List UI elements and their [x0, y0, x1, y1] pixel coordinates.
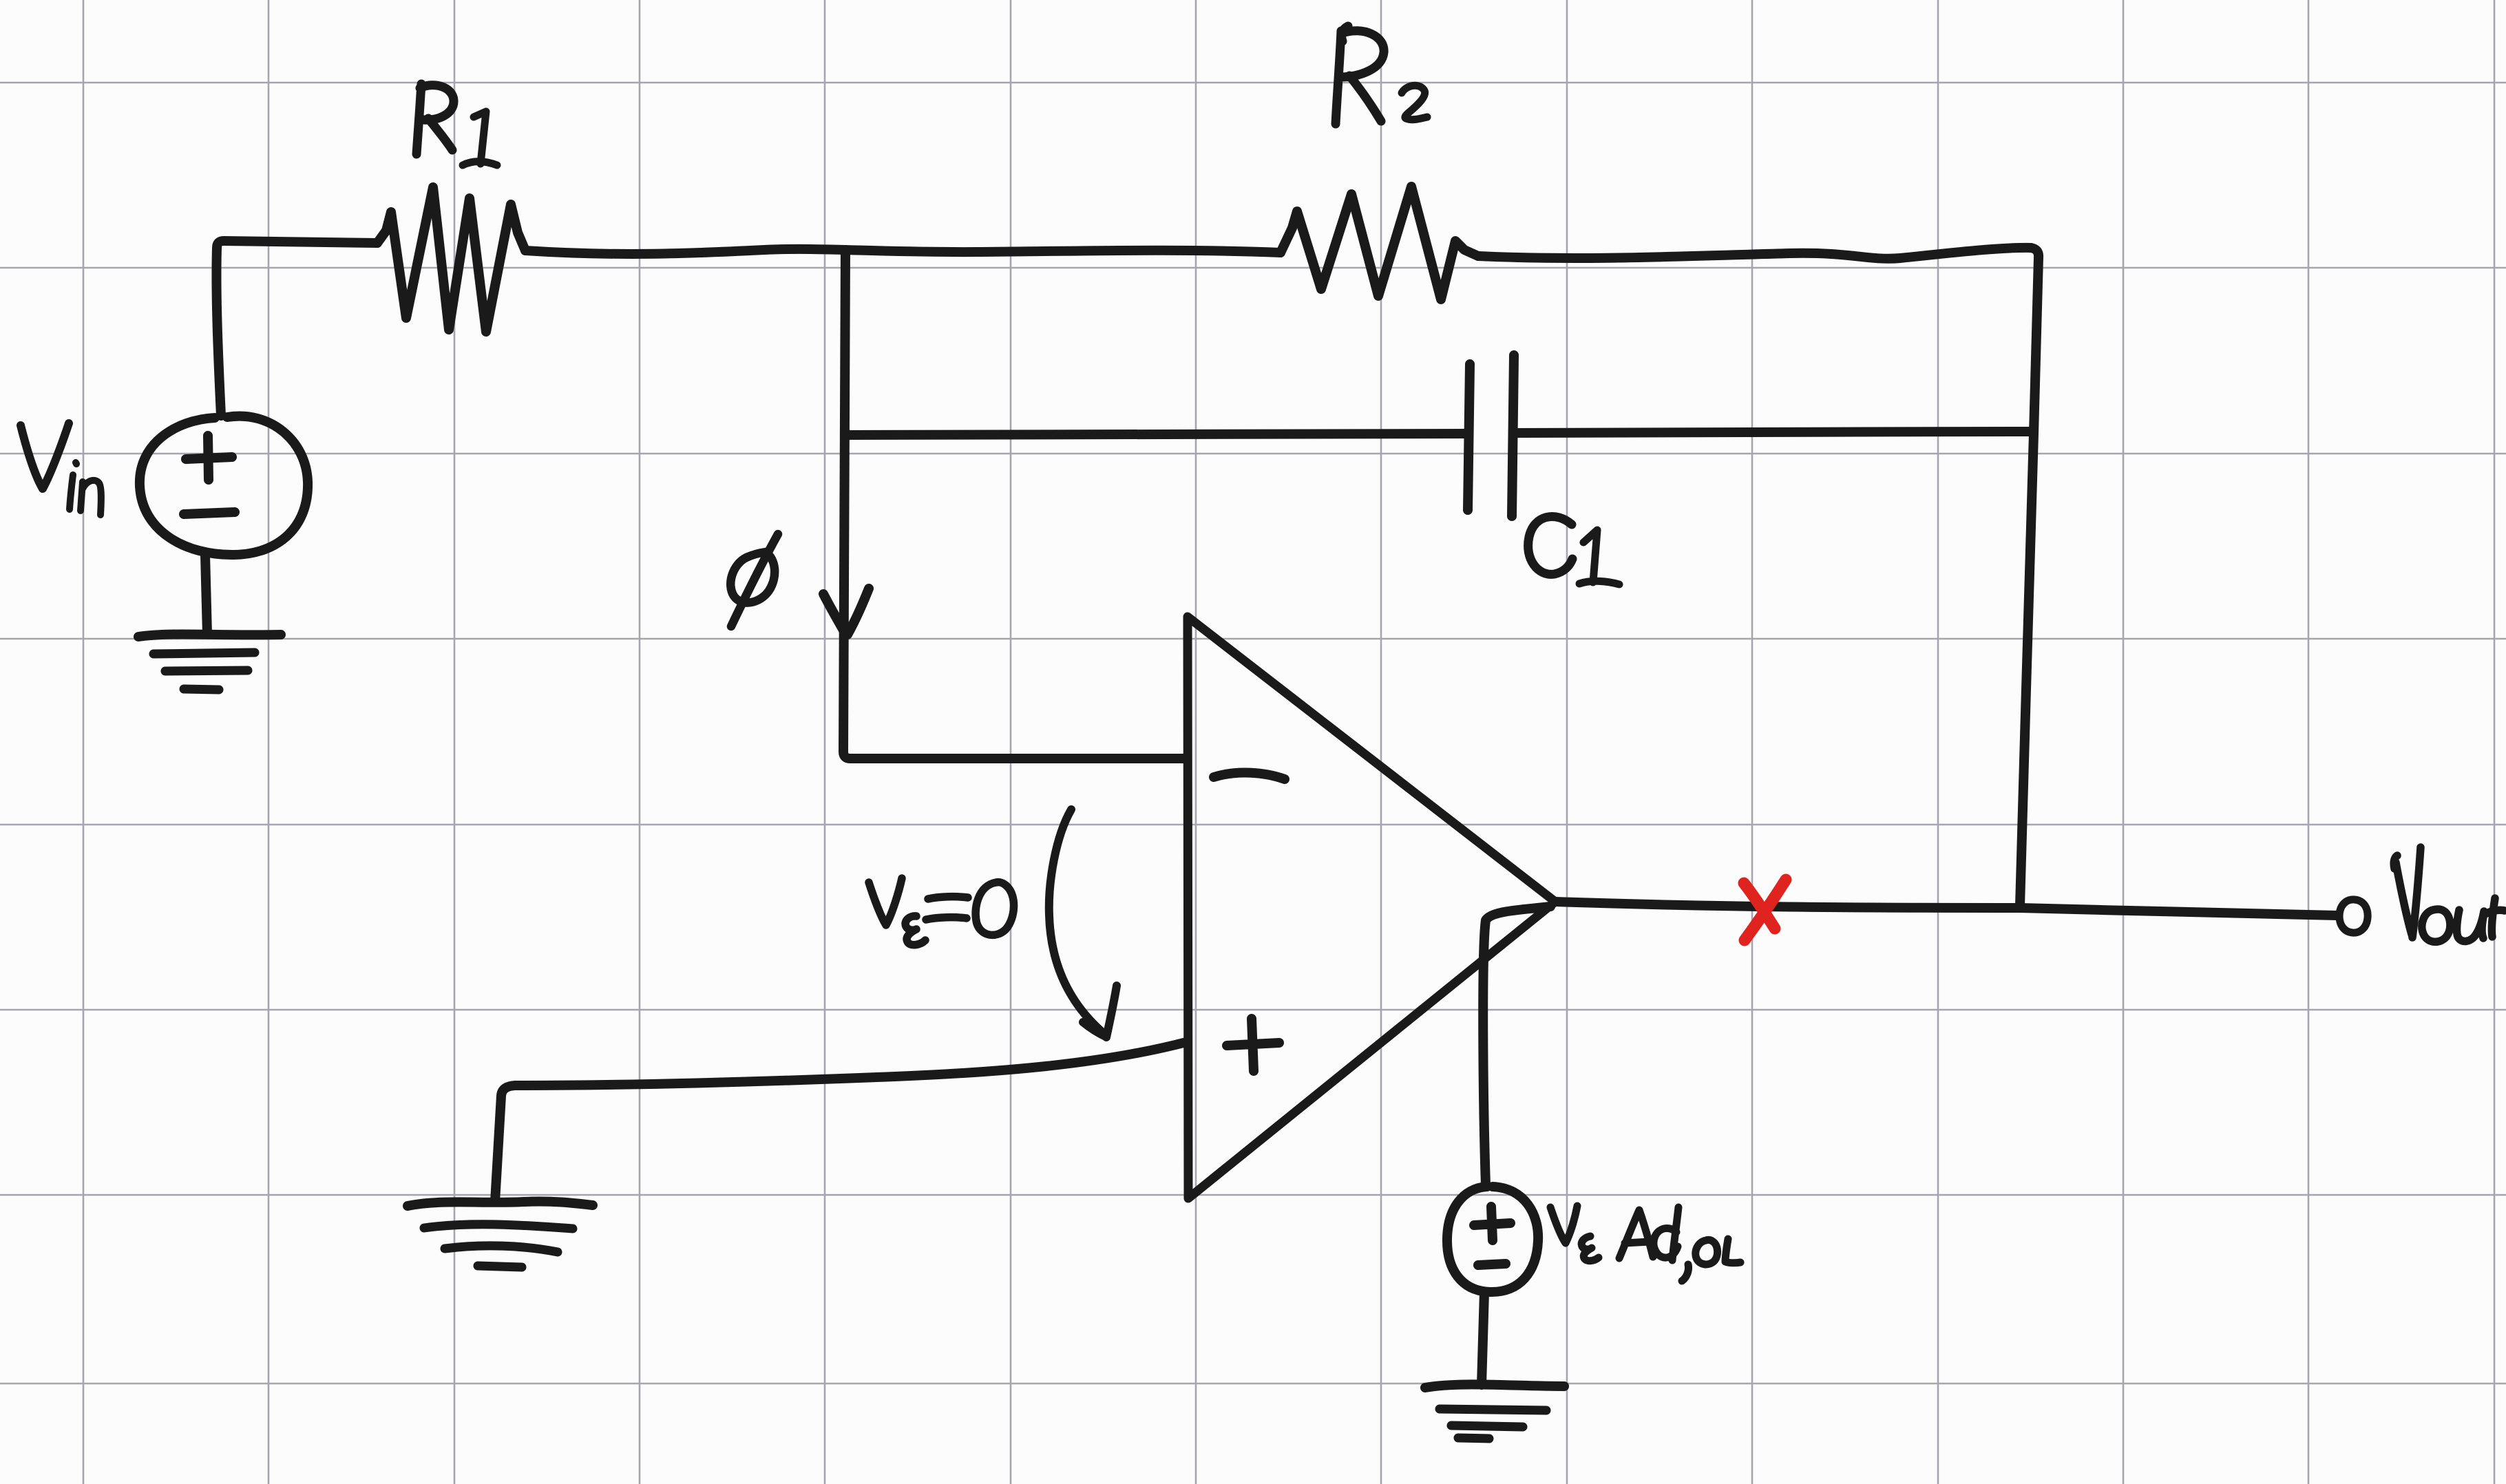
label R2	[1336, 26, 1384, 124]
ground (VeAdol)	[1425, 1384, 1564, 1388]
terminal Vout circle	[2339, 900, 2368, 933]
wire retrace overlap	[716, 250, 861, 252]
Vin plus	[186, 436, 232, 480]
op-amp U1 triangle	[1188, 617, 1555, 1198]
wire right vertical (Vout feedback)	[2020, 248, 2039, 906]
label Ve Adol	[1550, 1206, 1599, 1261]
wire non-inverting input	[495, 1042, 1186, 1202]
wire R1 to R2 (node to inverting branch)	[525, 249, 1281, 254]
op-amp minus sign	[1214, 773, 1285, 779]
capacitor C1 left plate	[1468, 364, 1470, 510]
wire to source VeAdol	[1483, 907, 1550, 1185]
Vin minus	[184, 512, 235, 514]
label Vout	[2394, 847, 2421, 937]
label Vin	[21, 423, 69, 489]
node A: inverting branch vertical	[843, 250, 1186, 759]
current arrowhead	[823, 589, 869, 635]
ground (non-inverting)	[408, 1201, 593, 1206]
resistor R2	[1281, 187, 1478, 299]
capacitor C1 right plate	[1512, 355, 1514, 516]
label Ve=0	[869, 878, 1014, 945]
wire Vin top to R1	[216, 241, 377, 416]
wire capacitor right	[1514, 432, 2033, 433]
resistor R1	[377, 187, 525, 332]
arrow Ve	[1049, 809, 1104, 1034]
ground (Vin)	[138, 634, 281, 637]
wire Vin bottom	[205, 555, 207, 634]
label phi	[730, 534, 778, 626]
label C1	[1528, 516, 1572, 574]
source VeAdol circle	[1447, 1187, 1538, 1292]
wire capacitor left	[845, 434, 1467, 435]
wire op-amp output	[1555, 902, 2337, 915]
VeAdol plus	[1474, 1207, 1510, 1240]
op-amp plus sign	[1227, 1019, 1279, 1071]
wire R2 to top-right corner	[1478, 248, 2031, 259]
wire VeAdol bottom	[1482, 1292, 1484, 1385]
node X (red cross)	[1744, 880, 1786, 940]
label R1	[417, 84, 454, 154]
VeAdol minus	[1478, 1264, 1506, 1265]
source Vin circle	[140, 416, 308, 555]
